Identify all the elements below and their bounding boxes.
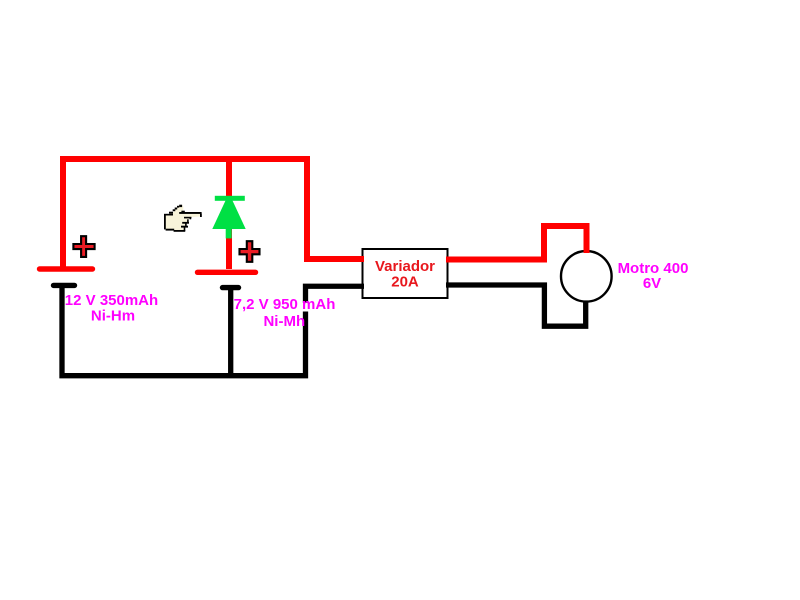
svg-text:Ni-Hm: Ni-Hm xyxy=(91,308,135,325)
svg-text:Ni-Mh: Ni-Mh xyxy=(263,313,305,330)
svg-text:20A: 20A xyxy=(391,273,419,290)
svg-text:6V: 6V xyxy=(643,275,661,292)
svg-text:7,2 V 950 mAh: 7,2 V 950 mAh xyxy=(234,296,336,313)
svg-text:12 V 350mAh: 12 V 350mAh xyxy=(65,292,158,309)
